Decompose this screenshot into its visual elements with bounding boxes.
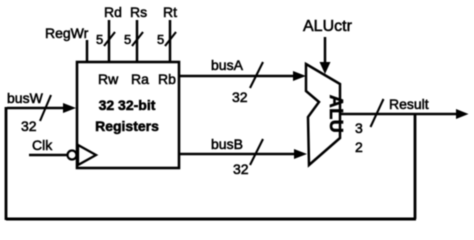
svg-text:Clk: Clk [32,137,53,153]
wire busA [179,75,296,78]
svg-text:ALU: ALU [326,95,346,134]
svg-text:5: 5 [157,32,164,47]
slash Rd 5 [104,32,115,46]
svg-text:3: 3 [355,120,363,136]
svg-text:32 32-bit: 32 32-bit [99,97,156,113]
arrowhead busA [293,71,306,81]
svg-text:Registers: Registers [95,118,159,134]
slash Rs 5 [132,32,143,46]
svg-text:busB: busB [211,136,243,152]
wire Result [340,113,460,116]
svg-text:5: 5 [124,32,131,47]
svg-text:5: 5 [96,32,103,47]
svg-text:Result: Result [389,96,429,112]
ALU U1 [306,64,340,165]
clock triangle [78,145,96,165]
register file box [77,62,179,168]
wire busW horizontal [7,107,66,110]
wire Rt vertical [169,20,172,62]
wire Rs vertical [136,20,139,62]
svg-text:32: 32 [233,161,249,177]
svg-text:busA: busA [211,57,244,73]
svg-text:32: 32 [21,118,37,134]
slash busB 32 [250,139,263,165]
slash Result 32 [371,99,384,127]
svg-text:Rw: Rw [98,71,119,87]
svg-text:32: 32 [232,89,248,105]
arrowhead busB [294,149,307,159]
svg-text:Rt: Rt [163,4,177,20]
slash Rt 5 [165,32,176,46]
svg-text:Rb: Rb [158,71,176,87]
wire Clk horizontal [29,154,67,157]
svg-text:Ra: Ra [131,71,149,87]
wire feedback left vertical [5,107,8,220]
svg-text:2: 2 [355,139,363,155]
arrowhead ALUctr [320,62,331,74]
svg-text:Rs: Rs [130,4,147,20]
clock bubble [68,151,77,160]
slash busA 32 [250,62,263,88]
arrowhead busW [63,103,76,113]
arrowheads [63,62,469,159]
wire ALUctr vertical [324,37,327,65]
wire RegWr vertical [86,40,89,62]
wire Rd vertical [108,20,111,62]
arrowhead Result [456,109,469,119]
wire busB [179,153,297,156]
slash busW 32 [40,95,51,121]
svg-text:RegWr: RegWr [45,25,89,41]
svg-text:ALUctr: ALUctr [303,18,353,35]
svg-text:Rd: Rd [104,4,122,20]
svg-text:busW: busW [7,90,44,106]
wire feedback right vertical [414,114,417,219]
slash marks [40,32,384,165]
wire feedback bottom [6,218,416,221]
